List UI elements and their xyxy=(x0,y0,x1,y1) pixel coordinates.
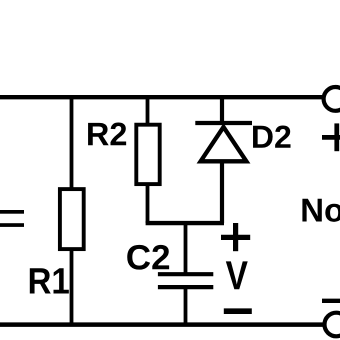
wire: R2 branch, top bus down to R2 xyxy=(146,97,150,126)
label No (load annotation, cut at edge) xyxy=(302,199,340,222)
capacitor C2 top plate xyxy=(158,272,213,276)
terminal: top right output (circle, cut at edge) xyxy=(324,87,340,111)
wire: R2 bottom lead down to junction rail xyxy=(146,186,150,223)
wire: D2 branch, top bus down to cathode bar xyxy=(220,97,224,123)
wire: D2 anode lead down to junction rail xyxy=(220,161,224,223)
wire: junction rail joining R2, C2 and D2 bottoms xyxy=(146,221,224,225)
wire: top bus from left edge to output terminal xyxy=(0,95,322,99)
label R2 xyxy=(88,123,126,146)
wire: C2 branch, junction rail down to top plate xyxy=(184,223,188,274)
label V (output voltage) xyxy=(226,261,248,289)
wire: bottom bus from left edge to output terminal xyxy=(0,322,324,327)
terminal: bottom right output (circle, cut at edge) xyxy=(325,313,340,337)
diode D2 triangle (anode, pointing up) xyxy=(201,127,247,161)
resistor R2 xyxy=(136,125,159,184)
label C2 xyxy=(127,245,169,270)
capacitor C2 bottom plate xyxy=(158,285,213,289)
label - (output terminal polarity) xyxy=(322,299,340,303)
label D2 xyxy=(253,125,290,147)
diode D2 cathode bar xyxy=(195,121,252,125)
resistor R1 xyxy=(60,189,84,249)
label R1 xyxy=(30,268,69,293)
wire: C2 bottom plate down to bottom bus xyxy=(184,288,188,325)
wire: R1 bottom lead down to bottom bus xyxy=(70,249,74,325)
battery plates (source, cut off at left edge) xyxy=(0,210,24,227)
wire: R1 branch, top bus down to R1 xyxy=(70,97,74,189)
label + (capacitor voltage polarity) xyxy=(221,223,250,251)
label - (capacitor voltage polarity) xyxy=(224,308,252,314)
label + (output terminal polarity) xyxy=(322,123,340,151)
